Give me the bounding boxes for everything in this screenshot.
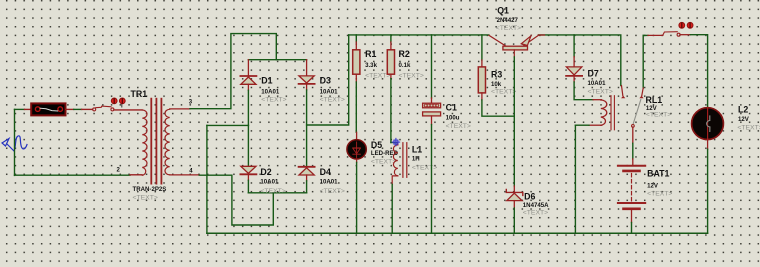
svg-text:TRAN-2P2S: TRAN-2P2S — [133, 186, 167, 193]
svg-text:2N4427: 2N4427 — [497, 17, 519, 24]
svg-text:<TEXT>: <TEXT> — [320, 97, 345, 104]
wire: midpoint rail left — [207, 124, 249, 126]
svg-text:<TEXT>: <TEXT> — [320, 188, 345, 195]
svg-text:<TEXT>: <TEXT> — [412, 165, 437, 172]
diode D3 — [299, 60, 315, 166]
svg-text:10A01: 10A01 — [320, 179, 339, 186]
battery BAT1 — [618, 159, 645, 223]
wire: main top rail right section — [538, 35, 620, 86]
svg-text:L2: L2 — [738, 105, 748, 115]
svg-text:1H: 1H — [412, 156, 420, 163]
zener D6 — [506, 186, 523, 233]
svg-text:12V: 12V — [738, 116, 750, 123]
svg-text:<TEXT>: <TEXT> — [496, 25, 521, 32]
svg-text:10A01: 10A01 — [588, 80, 607, 87]
resistor R1 — [353, 35, 360, 132]
svg-text:TR1: TR1 — [131, 89, 148, 99]
wire: contact to lamp switch — [643, 34, 648, 36]
svg-text:<TEXT>: <TEXT> — [446, 123, 471, 130]
svg-text:C1: C1 — [446, 102, 457, 112]
svg-text:D1: D1 — [261, 75, 272, 85]
wire: bridge bottom rail — [248, 192, 306, 194]
wire: coil bottom return — [589, 124, 602, 126]
svg-text:D7: D7 — [588, 69, 599, 79]
wire: pin4 run — [199, 175, 273, 225]
transformer TR1 — [142, 99, 199, 184]
svg-text:10A01: 10A01 — [320, 89, 339, 96]
blue origin marker — [392, 138, 399, 145]
secondary pin stubs — [170, 108, 190, 110]
svg-text:<TEXT>: <TEXT> — [261, 97, 286, 104]
relay contact NC lead — [621, 86, 625, 99]
relay RL1 coil — [601, 96, 615, 130]
diode D2 — [240, 125, 256, 192]
svg-text:D5: D5 — [371, 140, 382, 150]
led D5 — [347, 132, 366, 233]
transistor Q1 — [489, 35, 545, 186]
diode D4 — [299, 167, 315, 193]
wire: midpoint rail right — [307, 35, 349, 125]
wire: AC loop left vertical — [14, 109, 16, 175]
wire: fuse to switch — [66, 108, 74, 110]
inductor L1 — [391, 143, 407, 234]
svg-text:<TEXT>: <TEXT> — [647, 191, 672, 198]
wire: bottom rail — [207, 232, 708, 234]
wire: AC loop bottom — [15, 174, 131, 176]
AC source squiggle — [2, 136, 27, 151]
svg-text:R2: R2 — [399, 49, 410, 59]
svg-text:100u: 100u — [446, 114, 460, 121]
lamp switch lever — [663, 32, 680, 37]
svg-text:<TEXT>: <TEXT> — [491, 89, 516, 96]
diode D1 — [240, 60, 256, 126]
wire: pin3 to bridge riser — [190, 34, 276, 109]
svg-text:<TEXT>: <TEXT> — [737, 125, 760, 132]
svg-text:R3: R3 — [491, 69, 502, 79]
core lines — [150, 99, 152, 184]
secondary coil — [165, 109, 170, 175]
svg-text:10A01: 10A01 — [260, 179, 279, 186]
svg-text:<TEXT>: <TEXT> — [260, 188, 285, 195]
svg-text:10A01: 10A01 — [261, 89, 280, 96]
svg-text:3.3k: 3.3k — [365, 62, 377, 69]
svg-text:BAT1: BAT1 — [647, 168, 669, 178]
svg-text:Q1: Q1 — [497, 5, 509, 15]
switch SW1 (closed lever) — [93, 106, 114, 111]
lamp L2 — [692, 108, 724, 234]
svg-text:D4: D4 — [320, 167, 331, 177]
svg-text:D6: D6 — [524, 191, 535, 201]
diode D7 — [566, 35, 601, 100]
svg-text:0.1k: 0.1k — [399, 62, 411, 69]
resistor R3 — [478, 35, 514, 116]
capacitor C1 — [423, 35, 441, 233]
relay switch arm — [632, 35, 644, 158]
svg-text:RL1: RL1 — [646, 95, 663, 105]
red indicator dots above TR1 — [111, 98, 125, 107]
wire: switch to lamp — [680, 34, 690, 36]
svg-text:12V: 12V — [647, 183, 659, 190]
wire: left dc drop — [206, 125, 208, 233]
primary coil — [142, 110, 147, 175]
wire: fuse feed top — [15, 108, 25, 110]
svg-text:D3: D3 — [320, 75, 331, 85]
svg-text:<TEXT>: <TEXT> — [523, 210, 548, 217]
svg-text:R1: R1 — [365, 49, 376, 59]
svg-text:<TEXT>: <TEXT> — [646, 112, 671, 119]
svg-text:<TEXT>: <TEXT> — [371, 158, 396, 165]
red indicator dots top right — [679, 22, 693, 28]
wire: main top rail left section — [349, 34, 489, 36]
fuse FU — [31, 103, 65, 115]
svg-text:<TEXT>: <TEXT> — [588, 88, 613, 95]
wire: switch to primary — [114, 109, 142, 111]
resistor R2 — [387, 35, 394, 143]
wire: bridge top rail — [248, 59, 306, 61]
svg-text:D2: D2 — [260, 167, 271, 177]
svg-text:L1: L1 — [412, 145, 422, 155]
svg-text:1N4745A: 1N4745A — [523, 202, 549, 209]
svg-text:<TEXT>: <TEXT> — [133, 195, 158, 202]
svg-text:10k: 10k — [491, 81, 502, 88]
svg-text:<TEXT>: <TEXT> — [399, 72, 424, 79]
